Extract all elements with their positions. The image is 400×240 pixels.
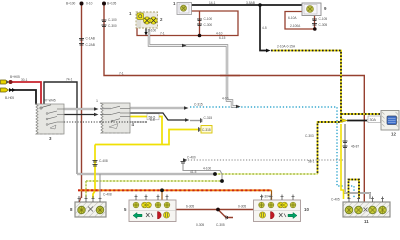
svg-text:2-10A·0-15A: 2-10A·0-15A bbox=[277, 45, 296, 49]
wire park lamp feed horizontal y35 bbox=[137, 11, 238, 36]
svg-text:7-1: 7-1 bbox=[119, 71, 124, 75]
pin stubs cluster 5 bbox=[135, 195, 169, 201]
svg-text:0-305: 0-305 bbox=[238, 205, 246, 209]
svg-text:14-1: 14-1 bbox=[209, 1, 216, 5]
svg-text:C-315: C-315 bbox=[194, 103, 203, 107]
wire feed 2 overlay across gray bbox=[220, 75, 240, 77]
wire box3 to box4 gray bbox=[64, 108, 96, 110]
node junction dot y35 bbox=[198, 34, 202, 38]
svg-text:6-15: 6-15 bbox=[219, 36, 226, 40]
connector arrow gray dotted start bbox=[183, 158, 188, 161]
svg-text:4-5: 4-5 bbox=[262, 26, 267, 30]
marker lamp 9 bbox=[302, 3, 321, 16]
inline connector ticks wire feed2 bbox=[102, 20, 107, 27]
svg-text:C-100: C-100 bbox=[204, 17, 213, 21]
wire yellow-green dashed lower y181 bbox=[86, 174, 222, 199]
wire yellow-black hook at lamp 11 bbox=[349, 180, 360, 200]
svg-text:C-400: C-400 bbox=[187, 156, 196, 160]
svg-text:11: 11 bbox=[364, 219, 369, 224]
pin stubs fog lamp 8 bbox=[78, 196, 102, 202]
svg-text:4-10: 4-10 bbox=[222, 97, 229, 101]
wire orange-red dashed y189 bbox=[78, 190, 272, 200]
svg-text:C-408: C-408 bbox=[103, 193, 112, 197]
connector arrows yellow bbox=[199, 127, 200, 131]
svg-text:B+105: B+105 bbox=[107, 2, 117, 6]
svg-text:30-1: 30-1 bbox=[21, 78, 28, 82]
svg-text:B+H05: B+H05 bbox=[10, 75, 20, 79]
svg-text:C-315: C-315 bbox=[204, 116, 213, 120]
wire gray tail y174 bbox=[77, 173, 215, 175]
svg-text:6-5: 6-5 bbox=[150, 118, 155, 122]
label box on dimmer output wires bbox=[147, 114, 159, 120]
connector arrows into box4 bbox=[94, 107, 99, 110]
svg-text:3-5AB: 3-5AB bbox=[246, 1, 255, 5]
wire box4 gray out bbox=[130, 107, 184, 109]
pin stubs rear fog 11 bbox=[348, 197, 385, 203]
dimmer switch 4 bbox=[100, 103, 130, 133]
wire battery black bbox=[10, 90, 36, 104]
node dot orange bbox=[160, 188, 164, 192]
inline connector ticks wire B+ left bbox=[79, 39, 84, 46]
wire battery red bbox=[10, 82, 41, 104]
front fog lamp 8 bbox=[75, 202, 106, 217]
wire yellow-green dashed upper y174 bbox=[215, 173, 318, 175]
wire orange overlay at crossings bbox=[82, 189, 103, 191]
node junction dot lamp9 bbox=[313, 27, 317, 31]
svg-text:C-303: C-303 bbox=[305, 134, 314, 138]
svg-text:4-100: 4-100 bbox=[203, 167, 211, 171]
node junction dot feed 2 bbox=[102, 2, 106, 6]
svg-text:C-315: C-315 bbox=[202, 128, 211, 132]
svg-text:0-305: 0-305 bbox=[196, 223, 204, 227]
wire marker lamp 9 loop bbox=[285, 12, 315, 30]
wire rear lamp red y209 bbox=[176, 210, 255, 218]
svg-text:1: 1 bbox=[96, 99, 98, 103]
connector arrows out of box4 right bbox=[184, 106, 189, 109]
svg-text:6-305: 6-305 bbox=[186, 205, 194, 209]
wire headlamp gray double-line path bbox=[149, 29, 236, 107]
wire yellow from box4 bbox=[93, 117, 198, 200]
svg-text:2-100A: 2-100A bbox=[290, 24, 301, 28]
svg-text:74-1: 74-1 bbox=[66, 78, 73, 82]
inline connector ticks gray x345 bbox=[343, 141, 348, 148]
svg-text:C-105: C-105 bbox=[319, 17, 328, 21]
wire box4 black out bbox=[130, 113, 186, 120]
connector arrow into yellow-black wire bbox=[266, 49, 271, 53]
inline connector ticks x199 bbox=[197, 19, 202, 26]
wire box3 dotted out bbox=[64, 121, 147, 123]
wire yellow-black striped main (fog feed) bbox=[271, 51, 380, 175]
wire cyan dotted bbox=[190, 107, 354, 199]
pin stubs cluster 10 bbox=[260, 195, 295, 201]
svg-text:7-1: 7-1 bbox=[160, 32, 165, 36]
svg-text:47-WH5: 47-WH5 bbox=[44, 99, 56, 103]
wire black vertical from switch y82 bbox=[44, 82, 77, 110]
svg-text:B-H05: B-H05 bbox=[5, 96, 14, 100]
wire motor feed gray segment bbox=[367, 120, 380, 122]
battery terminal plus bbox=[1, 80, 13, 84]
rear lamp cluster 5 bbox=[129, 200, 176, 222]
svg-text:C-2AB: C-2AB bbox=[86, 43, 95, 47]
washer motor 12 bbox=[381, 111, 399, 131]
wire battery feed vertical left (net B+) bbox=[81, 4, 83, 199]
svg-text:0-10: 0-10 bbox=[86, 2, 93, 6]
pin link red into fog lamp 8 bbox=[79, 196, 81, 202]
wire gray right x345 bbox=[345, 124, 370, 199]
tiny wire labels red bbox=[21, 36, 359, 209]
svg-text:C-300: C-300 bbox=[108, 24, 117, 28]
label box motor feed bbox=[368, 116, 381, 123]
connector yellow arrow motor feed bbox=[342, 119, 348, 123]
svg-text:C-304: C-304 bbox=[261, 195, 270, 199]
node dot rear red bbox=[216, 208, 220, 212]
svg-text:B+100: B+100 bbox=[66, 2, 76, 6]
wire battery feed vertical 2 (net B+ lamp feed) bbox=[104, 4, 364, 203]
node junction dot left battery feed bbox=[80, 2, 84, 6]
svg-text:C-300: C-300 bbox=[204, 23, 213, 27]
svg-text:C-408: C-408 bbox=[99, 159, 108, 163]
svg-text:10: 10 bbox=[304, 207, 309, 212]
inline connector ticks rear C-305 bbox=[226, 216, 228, 220]
rear fog lamp 11 bbox=[343, 202, 390, 217]
wire marker lamp ground black y5 bbox=[191, 5, 302, 51]
svg-text:0-100: 0-100 bbox=[148, 29, 156, 33]
svg-text:30A: 30A bbox=[370, 118, 377, 122]
svg-text:C-305: C-305 bbox=[216, 223, 225, 227]
svg-text:41-5: 41-5 bbox=[190, 170, 197, 174]
rear lamp cluster 10 bbox=[254, 200, 301, 222]
wire gray dotted y161 bbox=[188, 159, 344, 161]
node dot on gray tail bbox=[213, 172, 217, 176]
wire headlamp pin black bbox=[145, 28, 147, 32]
svg-text:46-87: 46-87 bbox=[351, 145, 359, 149]
svg-text:6-10A: 6-10A bbox=[288, 16, 297, 20]
svg-text:C-1AB: C-1AB bbox=[86, 37, 95, 41]
svg-text:C-100: C-100 bbox=[108, 18, 117, 22]
wire box3 to box4 black bbox=[64, 114, 96, 116]
svg-text:C-305: C-305 bbox=[319, 23, 328, 27]
tiny wire labels dark bbox=[5, 1, 340, 227]
node dot yellow-green junction bbox=[220, 179, 224, 183]
inline connector ticks x314 bbox=[312, 19, 317, 25]
wire yellow right x341 bbox=[341, 124, 344, 199]
node junction dot y5 bbox=[258, 3, 262, 7]
connector arrow on gray path bbox=[182, 44, 187, 47]
svg-text:58-1: 58-1 bbox=[308, 160, 315, 164]
pin stub gray into fog lamp 8 bbox=[99, 174, 101, 197]
svg-text:C-405: C-405 bbox=[331, 198, 340, 202]
lighting switch 3 bbox=[35, 104, 64, 134]
headlamp unit 2 bbox=[136, 12, 158, 28]
battery terminal minus bbox=[1, 88, 16, 92]
svg-text:12: 12 bbox=[391, 132, 396, 137]
wire box3 dotted overlay across box4 bbox=[100, 121, 147, 123]
wire gray s-bend to dotted bbox=[183, 163, 222, 174]
marker lamp 1 bbox=[177, 3, 192, 15]
inline connector ticks yellow x90 bbox=[93, 161, 98, 167]
wire motor feed black segment bbox=[347, 120, 367, 122]
